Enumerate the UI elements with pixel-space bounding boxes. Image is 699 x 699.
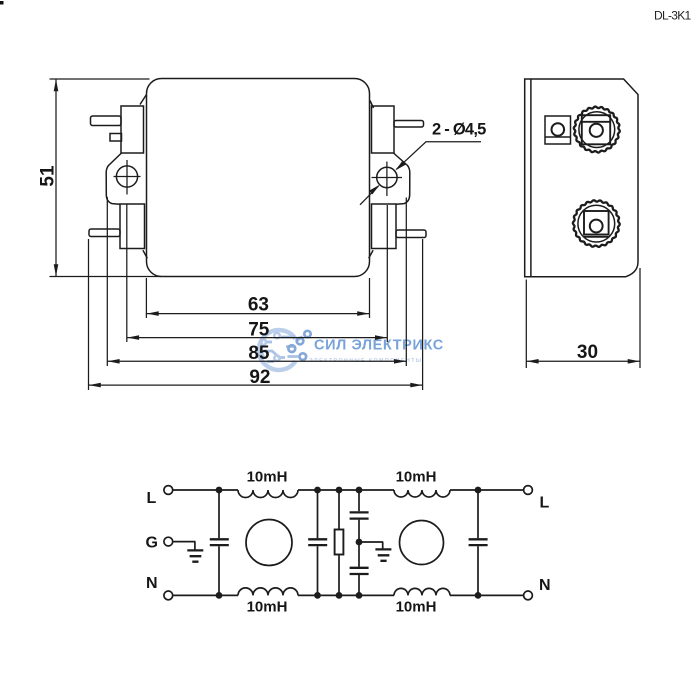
dimension 85 arrows [108, 359, 120, 364]
capacitor C1 [218, 490, 220, 595]
svg-text:L: L [147, 490, 157, 507]
lower screw terminal serrated ring [573, 200, 620, 247]
inductor L3 10mH [394, 490, 450, 497]
hole callout leader line [397, 142, 482, 169]
svg-text:10mH: 10mH [396, 599, 437, 616]
side view flange line [530, 79, 532, 277]
capacitor C4 (Y bottom) [350, 568, 369, 574]
svg-text:85: 85 [248, 343, 270, 364]
svg-text:СИЛ ЭЛЕКТРИКС: СИЛ ЭЛЕКТРИКС [314, 338, 444, 354]
dimension 92 arrows [89, 383, 101, 388]
svg-text:10mH: 10mH [247, 469, 288, 486]
dimension 51 extension lines [50, 79, 162, 277]
dimension 75 extension lines [127, 204, 388, 342]
upper-left pin [91, 116, 122, 126]
inductor L2 10mH [238, 588, 298, 596]
lower screw terminal square [584, 211, 609, 235]
lower screw hole [590, 220, 603, 233]
dimension 63 arrows [147, 311, 159, 316]
dimension 75 arrows [127, 335, 139, 340]
upper-right terminal block [372, 106, 395, 153]
wire G stub [173, 541, 196, 543]
left mounting bracket [106, 153, 121, 204]
left bracket tab diagonal bottom [143, 250, 147, 258]
svg-text:G: G [146, 535, 158, 552]
dimension 51 line [55, 79, 57, 277]
lower-left terminal block [120, 204, 145, 249]
upper screw terminal inner ring [579, 112, 615, 148]
svg-text:2 - Ø4,5: 2 - Ø4,5 [432, 121, 486, 139]
capacitor C3 (Y top) [358, 490, 360, 595]
hole callout leader tail [360, 186, 379, 205]
terminal L input [164, 486, 173, 495]
corner mark [0, 1, 4, 5]
left mounting hole [116, 166, 137, 187]
dimension 63 extension lines [146, 278, 369, 318]
svg-text:30: 30 [577, 342, 598, 363]
svg-text:51: 51 [38, 165, 59, 187]
svg-text:75: 75 [248, 319, 270, 340]
dimension 63 line [146, 313, 369, 315]
watermark logo [259, 330, 296, 370]
dimension 92 extension lines [89, 239, 423, 390]
dimension 85 line [107, 360, 406, 362]
resistor R1 [338, 490, 340, 595]
lower-right pin [396, 230, 426, 238]
svg-text:10mH: 10mH [247, 599, 288, 616]
right mounting hole [377, 167, 397, 187]
dimension 75 line [127, 337, 388, 339]
dimension 30 extension lines [526, 268, 640, 368]
svg-text:N: N [146, 575, 158, 592]
dimension 51 arrows [54, 79, 59, 91]
lower screw terminal inner ring [578, 205, 615, 242]
upper screw hole [590, 124, 603, 137]
side view body [525, 79, 638, 277]
svg-text:N: N [539, 577, 551, 594]
upper screw terminal square [582, 115, 610, 144]
upper screw terminal serrated ring [574, 107, 620, 153]
terminal N input [164, 591, 173, 600]
ground symbol at G [194, 542, 196, 550]
inductor L1 10mH [238, 490, 298, 498]
svg-text:10mH: 10mH [396, 469, 437, 486]
terminal N output [524, 591, 533, 600]
svg-text:63: 63 [248, 294, 269, 315]
right bracket tab diagonal top [370, 101, 374, 109]
left bracket tab diagonal top [140, 95, 147, 105]
capacitor C5 [477, 490, 479, 595]
svg-text:92: 92 [249, 367, 270, 388]
dimension 30 arrows [527, 359, 539, 364]
wire bottom rail [173, 594, 524, 596]
svg-text:DL-3K1: DL-3K1 [654, 8, 692, 22]
wire top rail [173, 489, 524, 491]
dimension 85 extension lines [107, 197, 406, 366]
filter body front view [147, 79, 370, 277]
right bracket tab diagonal bottom [369, 250, 373, 258]
lower-left pin [89, 229, 120, 237]
dimension 30 line [526, 360, 640, 362]
ground symbol mid [382, 542, 384, 549]
dimension 92 line [89, 384, 423, 386]
ground terminal square [545, 116, 571, 144]
right mounting bracket [394, 153, 410, 204]
lower-right terminal block [372, 204, 397, 249]
schematic group [146, 469, 551, 616]
terminal G input [164, 537, 173, 546]
wire Y midpoint to ground [359, 541, 383, 543]
terminal L output [524, 486, 533, 495]
upper-right pin [394, 121, 424, 128]
junction dots [216, 487, 482, 599]
choke core circle stage2 [400, 521, 444, 565]
inductor L4 10mH [394, 588, 450, 595]
svg-text:L: L [540, 495, 550, 512]
upper-left terminal block [121, 106, 144, 153]
choke core circle stage1 [246, 520, 292, 566]
capacitor C2 [317, 490, 319, 595]
upper-left small tab [110, 134, 122, 142]
